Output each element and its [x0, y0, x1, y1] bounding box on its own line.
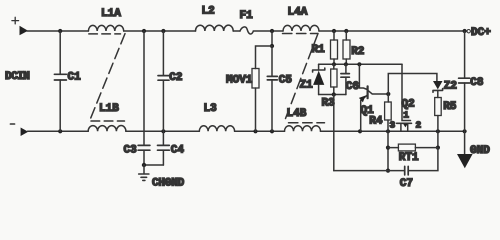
inductor L1B: [88, 126, 126, 132]
wire branch to MOV1: [256, 46, 273, 69]
svg-text:1: 1: [403, 109, 409, 120]
input arrow top: [20, 26, 29, 36]
svg-text:DCIN: DCIN: [5, 71, 29, 83]
wire node-B horizontal: [319, 94, 346, 96]
node C4 bottom rail: [161, 129, 165, 133]
capacitor C1: [54, 31, 66, 131]
ground GND symbol: [457, 131, 473, 168]
wire R3 node down to sense loop: [333, 95, 335, 171]
thermistor RT1: [388, 144, 438, 151]
svg-text:R4: R4: [369, 115, 383, 127]
svg-text:Z1: Z1: [300, 80, 314, 92]
node R4 bottom on rail: [386, 129, 390, 133]
svg-text:R5: R5: [443, 101, 457, 113]
resistor R1: [331, 31, 338, 64]
node R2 top: [344, 29, 348, 33]
svg-text:DC+: DC+: [471, 27, 491, 39]
inductor L4A: [283, 25, 319, 31]
node C3-column top: [142, 29, 146, 33]
wire bottom rail segment 1: [28, 130, 89, 132]
wire R5 node down: [437, 131, 439, 147]
svg-text:L3: L3: [204, 103, 218, 115]
wire top rail segment 1: [27, 30, 88, 32]
plus terminal mark: [12, 17, 19, 24]
transistor Q1: [359, 64, 388, 131]
inductor L1A: [88, 25, 123, 31]
node R3 bottom: [332, 92, 336, 96]
svg-text:C7: C7: [400, 178, 413, 190]
svg-text:Z2: Z2: [444, 80, 457, 92]
C3 feed column: [143, 31, 145, 145]
node C1 bottom: [58, 129, 62, 133]
node RT1 left: [386, 146, 390, 150]
DC+ terminal circle: [467, 30, 470, 33]
core bar of L4B (dashed): [289, 122, 325, 124]
inductor L4B: [285, 126, 321, 132]
node ground junction: [142, 163, 146, 167]
node R1 top: [332, 29, 336, 33]
core diagonal L4 (dashed): [285, 34, 318, 120]
capacitor C5: [267, 46, 277, 131]
resistor R3: [331, 64, 337, 94]
svg-text:GND: GND: [470, 145, 490, 157]
node rail end / GND: [463, 129, 467, 133]
capacitor C7: [405, 148, 438, 175]
core bar of L4A (dashed): [283, 33, 318, 35]
svg-text:C4: C4: [171, 144, 185, 156]
inductor L2: [196, 25, 234, 31]
svg-text:C2: C2: [169, 72, 182, 84]
svg-text:2: 2: [416, 119, 422, 130]
mosfet Q2 substrate arrow: [403, 124, 407, 128]
wire bottom rail segment 2: [126, 130, 199, 132]
node DC+ / C8 top: [463, 29, 467, 33]
core diagonal L1 (dashed): [90, 34, 125, 120]
core bar of L1A (dashed): [89, 33, 121, 35]
svg-text:C5: C5: [279, 74, 293, 86]
wire bottom rail segment 4: [321, 130, 465, 132]
node MOV/C5 column top: [270, 29, 274, 33]
wire MOV/C5 branch column: [271, 31, 273, 46]
node Q1 emitter on rail: [358, 129, 362, 133]
svg-text:L1A: L1A: [101, 8, 121, 20]
wire sense loop bottom: [334, 170, 405, 172]
svg-text:C1: C1: [68, 71, 82, 83]
node R1 bottom: [332, 62, 336, 66]
wire R4 node down: [387, 131, 389, 170]
node C2 top: [161, 29, 165, 33]
node C1 top: [58, 29, 62, 33]
svg-text:C6: C6: [346, 81, 359, 93]
node Q1 base feed: [357, 62, 361, 66]
wire gate feed down: [402, 64, 411, 120]
wire C4 to C3 ground node: [144, 164, 163, 166]
wire top rail segment 5: [319, 30, 465, 32]
wire node-A horizontal: [319, 63, 402, 65]
capacitor C6: [341, 64, 350, 94]
wire top rail segment 2: [124, 30, 196, 32]
capacitor C8: [459, 31, 470, 131]
wire top rail segment 4: [253, 30, 283, 32]
node R5 bottom on rail: [436, 129, 440, 133]
wire bottom rail segment 3: [235, 130, 285, 132]
node branch split: [270, 44, 274, 48]
resistor R2: [343, 31, 350, 64]
node R2/C6: [344, 62, 348, 66]
node RT1 right: [436, 146, 440, 150]
resistor R5: [435, 98, 442, 132]
capacitor C3: [138, 145, 150, 165]
wire top rail segment 3: [233, 30, 240, 32]
fuse F1: [240, 27, 253, 34]
svg-text:L1B: L1B: [99, 103, 119, 115]
mosfet Q2 channel bar: [397, 122, 412, 124]
svg-text:R2: R2: [351, 46, 364, 58]
node Q1 collector: [386, 92, 390, 96]
svg-text:L4A: L4A: [288, 6, 308, 18]
input arrow bottom: [21, 128, 29, 137]
svg-text:L4B: L4B: [287, 108, 307, 120]
zener Z1: [313, 64, 325, 94]
svg-text:RT1: RT1: [399, 152, 419, 164]
svg-text:L2: L2: [202, 5, 215, 17]
svg-text:3: 3: [390, 119, 396, 130]
capacitor C2: [158, 31, 169, 145]
svg-text:CHGND: CHGND: [152, 178, 185, 190]
resistor R4: [385, 94, 392, 131]
svg-text:C3: C3: [124, 144, 138, 156]
svg-text:C8: C8: [470, 77, 484, 89]
capacitor C4: [158, 145, 170, 165]
wire MOV1 to rail: [255, 88, 257, 131]
zener Z2: [433, 81, 443, 98]
varistor MOV1: [252, 69, 259, 89]
mosfet Q2 stems: [401, 123, 408, 131]
node C7 wire left: [386, 169, 390, 173]
node MOV1 bottom: [253, 129, 257, 133]
inductor L3: [199, 126, 234, 132]
core bar of L1B (dashed): [91, 120, 125, 122]
wire collector node up and over to Z2: [388, 74, 437, 95]
node C5 bottom: [270, 129, 274, 133]
svg-text:MOV1: MOV1: [226, 74, 253, 86]
svg-text:R1: R1: [312, 44, 326, 56]
svg-text:F1: F1: [240, 10, 254, 22]
minus terminal mark: [10, 123, 14, 125]
chassis ground CHGND: [139, 165, 149, 180]
